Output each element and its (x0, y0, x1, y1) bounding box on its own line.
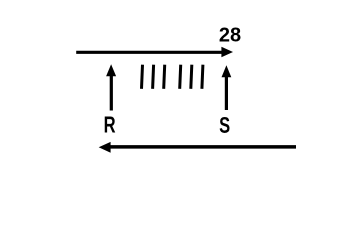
hatch stroke 3 (164, 65, 165, 89)
hatch marks (142, 65, 203, 89)
hatch stroke 2 (153, 65, 154, 89)
svg-text:R: R (104, 113, 116, 138)
R arrow (points up) (106, 64, 116, 110)
hatch stroke 5 (191, 65, 192, 89)
svg-text:S: S (219, 113, 230, 138)
bottom arrow (points left) (99, 142, 296, 153)
svg-text:28: 28 (219, 24, 241, 46)
S arrow (points up) (222, 65, 232, 110)
hatch stroke 4 (180, 65, 181, 89)
hatch stroke 1 (142, 65, 143, 89)
hatch stroke 6 (202, 65, 203, 89)
top arrow (points right) (76, 47, 233, 58)
